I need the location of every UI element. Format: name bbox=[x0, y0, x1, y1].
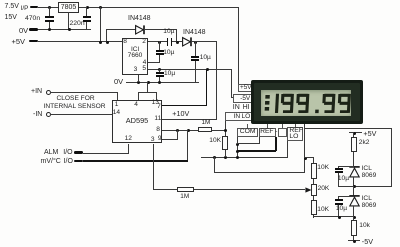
wire reference loop bottom to diode node bbox=[354, 186, 392, 187]
label I/P bbox=[21, 6, 29, 12]
junction rail B riser on rail A bbox=[213, 156, 216, 159]
wire +5V node to 2k2 bbox=[353, 132, 354, 137]
wire 1M offset to 20K wiper arrow bbox=[194, 189, 305, 190]
resistor R 10k to -5V bbox=[351, 220, 357, 236]
junction +5V rail drop bbox=[99, 41, 102, 44]
diode D2 IN4148 bbox=[182, 37, 194, 47]
diode D4 ICL8069 bbox=[349, 195, 360, 207]
junction REF+ tie on COM drop bbox=[236, 150, 239, 153]
wire meter stub to unused box bbox=[282, 124, 283, 127]
ref designator ICL 8069 D4 bbox=[362, 196, 372, 203]
wire REF LO box drop to common rail bbox=[287, 141, 288, 157]
wire reference loop right edge bbox=[391, 128, 392, 187]
wire meter REF LO pin drop bbox=[304, 124, 305, 172]
note CLOSE FOR INTERNAL SENSOR bbox=[57, 96, 95, 103]
junction reference chain bottom node bbox=[353, 216, 356, 219]
wire 0V to AD595 com bracket bbox=[147, 82, 148, 92]
capacitor 10u series capD bbox=[167, 38, 169, 47]
wire bottom node to 10k bbox=[353, 216, 354, 220]
digital panel meter DPM photo bbox=[251, 80, 363, 124]
arrowhead into 20K wiper bbox=[305, 187, 312, 193]
annunciator stack bbox=[265, 95, 270, 111]
value label 20K bbox=[318, 186, 330, 193]
wire IC1 pin3 drop bbox=[138, 75, 139, 82]
junction bracket riser on 0V line bbox=[147, 81, 150, 84]
value label 10k bbox=[359, 223, 370, 230]
resistor R 2k2 bbox=[351, 137, 357, 152]
label -5V reference bbox=[362, 238, 373, 245]
resistor R 1M offset bbox=[177, 187, 194, 192]
diode D3 ICL8069 bbox=[349, 166, 360, 178]
wire mV/C to pin8/9 node bbox=[83, 160, 188, 162]
junction cap D4 bottom on chain bottom wire bbox=[338, 216, 341, 219]
wire D2 cathode to +10V riser bbox=[192, 41, 217, 42]
terminal +IN circle bbox=[46, 90, 51, 95]
wire I/P to 7805 input bbox=[38, 7, 59, 8]
capacitor 10u capB reservoir bbox=[195, 41, 196, 55]
label 0V net bbox=[114, 78, 123, 86]
wire -IN to AD595 pin 14 bbox=[50, 114, 112, 115]
wire D1 cathode drop to pin2 line bbox=[176, 29, 177, 42]
capacitor 10u across D3 bbox=[338, 166, 354, 167]
value label 10u capB bbox=[200, 55, 211, 62]
wire common rail A bbox=[201, 157, 288, 158]
wire IC1 pin2 line bbox=[148, 41, 167, 42]
junction 470n top bbox=[48, 6, 51, 9]
junction capC bottom on 0V line bbox=[158, 81, 161, 84]
wire +10V riser down to AD595 pin 11 bbox=[216, 41, 217, 119]
wire D1 cathode to drop bbox=[145, 29, 177, 30]
wire 10K bottom to rail A bbox=[225, 150, 226, 157]
junction COM drop on rail A bbox=[236, 156, 239, 159]
wire 20K to 10K bottom bbox=[313, 196, 314, 200]
junction IC1 pin3 on 0V line bbox=[137, 81, 140, 84]
wire meter stub to COM box bbox=[247, 124, 248, 127]
op IC1 ICL7660 bbox=[122, 38, 148, 75]
junction diode riser on +5V rail bbox=[106, 41, 109, 44]
wire REF+ link thick bbox=[275, 137, 277, 151]
wire D4 anode to bottom node bbox=[353, 206, 354, 217]
junction D2 cathode node bbox=[194, 41, 197, 44]
callout box +5V meter pin bbox=[238, 84, 254, 91]
resistor R 10K divider bbox=[222, 136, 227, 150]
value label 10u capA bbox=[163, 50, 174, 57]
node +5V of reference bbox=[349, 132, 362, 133]
capacitor 10u flying capA bbox=[159, 41, 160, 49]
label +IN bbox=[31, 88, 42, 95]
wire 0V line bbox=[126, 82, 199, 83]
value label 1M offset bbox=[180, 194, 189, 200]
value label 10u capD bbox=[163, 29, 174, 36]
wire REF- link bbox=[259, 137, 260, 144]
label IN4148 D2 bbox=[183, 29, 206, 36]
label +5V reference bbox=[363, 130, 376, 137]
junction D1 drop on pin2 line bbox=[176, 41, 179, 44]
wire 2k2 to D3 bbox=[353, 152, 354, 166]
wire reference loop top edge bbox=[304, 128, 392, 129]
junction +5V branch on output rail bbox=[99, 6, 102, 9]
wire mid node down to D4 bbox=[353, 186, 354, 197]
wire divider connector bbox=[304, 157, 314, 158]
wire riser +5V rail to D1 anode bbox=[106, 29, 107, 41]
terminal I/P bbox=[30, 6, 39, 8]
junction mid reference node bbox=[353, 185, 356, 188]
junction 10K bottom on rail A bbox=[224, 156, 227, 159]
callout box IN LO meter pin bbox=[225, 112, 253, 120]
capacitor C 220n bbox=[86, 7, 87, 16]
callout box REF LO meter pin bbox=[287, 127, 303, 141]
wire IC1 pin5 -5V line bbox=[148, 69, 233, 70]
label IN4148 D1 bbox=[128, 15, 151, 22]
wire cap D3 bottom tie bbox=[338, 186, 354, 187]
capacitor 10u capC bbox=[159, 69, 160, 72]
wire 7805 ground pin bbox=[68, 12, 69, 29]
callout box unused meter pin bbox=[278, 128, 288, 137]
junction 7805 gnd on 0V rail bbox=[68, 28, 71, 31]
label 15V supply bbox=[5, 14, 17, 21]
callout box -5V meter pin bbox=[233, 94, 253, 103]
value label 10K bbox=[209, 138, 221, 145]
value label 10u across D4 bbox=[336, 206, 347, 213]
wire COM drop to common rail bbox=[237, 137, 238, 158]
label IN HI meter pin bbox=[233, 104, 250, 111]
value label 1M bbox=[202, 120, 211, 126]
ref designator ICL 8069 D3 bbox=[362, 166, 372, 173]
label +10V net bbox=[172, 110, 189, 117]
value label 10K bottom bbox=[317, 207, 329, 214]
decimal point bbox=[315, 110, 319, 114]
regulator U 7805 bbox=[58, 2, 80, 13]
wire pin5 line drop to -5V callout bbox=[231, 69, 232, 98]
wire AD595 pin 3 drop bbox=[153, 144, 154, 191]
wire branch 7805 output down to +5V rail bbox=[100, 7, 101, 42]
junction 220n top bbox=[86, 6, 89, 9]
junction 1M on divider vertical bbox=[224, 129, 227, 132]
wire IN LO divider vertical bbox=[225, 121, 226, 137]
junction 470n bottom on 0V rail bbox=[48, 28, 51, 31]
label mV/C I/O bbox=[41, 158, 73, 165]
label ALM I/O bbox=[44, 149, 73, 156]
junction divider connector on REF LO drop bbox=[304, 157, 307, 160]
resistor R 1M input bbox=[198, 127, 211, 132]
terminal -IN circle bbox=[46, 112, 51, 117]
node -5V of reference bbox=[348, 240, 360, 241]
digit 9 #2 bbox=[298, 94, 308, 113]
label 7.5V supply bbox=[5, 3, 19, 10]
wire meter stub to REF LO box bbox=[295, 124, 296, 127]
wire divider bottom to reference chain bbox=[313, 215, 314, 218]
wire +IN to AD595 pin 1 bbox=[50, 92, 118, 93]
wire +5V drop from top rail to meter bbox=[238, 7, 239, 85]
wire 0V rail bbox=[38, 29, 92, 30]
wire AD595 pin 8 line bbox=[162, 130, 199, 131]
label 0V bbox=[19, 27, 28, 35]
wire pin 3 run to 1M offset resistor bbox=[153, 189, 178, 190]
label -IN bbox=[33, 111, 42, 118]
callout box COM meter pin bbox=[237, 128, 259, 137]
junction capC top on pin5 line bbox=[158, 68, 161, 71]
value label 10K top bbox=[317, 165, 329, 172]
wire AD595 pin 11 to +10V riser bbox=[162, 119, 217, 120]
label +5V bbox=[12, 38, 26, 46]
junction capA top on pin2 line bbox=[158, 41, 161, 44]
junction pin9 tie on pin8 line bbox=[176, 129, 179, 132]
potentiometer R 20K bbox=[311, 184, 316, 197]
value label 10u capC bbox=[164, 71, 175, 78]
wire meter stub to REF- box bbox=[267, 124, 268, 127]
wire +5V rail to IC1 pin 8 bbox=[38, 41, 123, 42]
wire mV output drop bbox=[187, 130, 188, 162]
terminal ALM bbox=[74, 151, 84, 153]
op U2 AD595 bbox=[112, 100, 163, 143]
wire D3 anode to mid node bbox=[353, 177, 354, 187]
wire 1M to IN LO divider bbox=[212, 130, 226, 131]
wire AD595 pin 7 to -5V line bbox=[162, 105, 207, 107]
terminal mV/C bbox=[74, 160, 84, 162]
terminal +5V bbox=[29, 40, 37, 42]
wire AD595 pin 9 tie to pin 8 bbox=[162, 139, 177, 140]
wire common rail B bbox=[214, 157, 215, 173]
resistor R 10K divider top bbox=[311, 163, 316, 179]
wire 10k to -5V node bbox=[353, 236, 354, 242]
value label 470n bbox=[25, 16, 40, 23]
resistor R 10K divider bottom bbox=[311, 200, 316, 215]
value label 220n bbox=[70, 21, 85, 28]
capacitor C 470n bbox=[49, 7, 50, 16]
junction mV output branch on pin8 line bbox=[187, 129, 190, 132]
wire 7805 output rail to meter +5V drop bbox=[79, 7, 239, 8]
digit 9 #1 bbox=[282, 94, 292, 113]
capacitor 10u across D4 bbox=[338, 196, 354, 197]
junction pin7 branch on pin5 line bbox=[206, 68, 209, 71]
diode D1 IN4148 bbox=[135, 25, 147, 35]
wire 10K to 20K bbox=[313, 179, 314, 184]
value label 2k2 bbox=[359, 140, 370, 147]
wire ALM to AD595 pin 12 bbox=[83, 153, 129, 154]
value label 10u across D3 bbox=[338, 176, 349, 183]
digit 9 #3 bbox=[324, 94, 334, 113]
callout box REF- meter pin bbox=[259, 128, 276, 137]
junction REF- tie on COM drop bbox=[236, 143, 239, 146]
digit 9 #4 bbox=[339, 94, 349, 113]
terminal 0V bbox=[29, 28, 37, 30]
half digit 1 bbox=[277, 94, 278, 113]
